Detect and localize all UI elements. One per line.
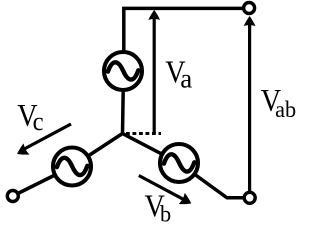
node: neutral point dotted reference line xyxy=(126,132,161,135)
svg-text:b: b xyxy=(160,201,171,227)
label Vab xyxy=(261,83,296,122)
label Va xyxy=(165,54,192,94)
terminal b (open circle, bottom right) xyxy=(244,192,255,203)
wire: from top source down to neutral node xyxy=(121,90,125,134)
terminal a (open circle, top right) xyxy=(244,3,255,14)
wire: top horizontal bus from corner to terminal a xyxy=(124,8,243,52)
ac source (phase a) xyxy=(104,52,142,90)
svg-text:a: a xyxy=(180,64,192,94)
ac source (phase c) xyxy=(53,148,91,186)
arrow Vb (pointing down-right) xyxy=(139,176,194,210)
arrow Vc (pointing down-left) xyxy=(14,124,71,160)
wire: neutral node to left source xyxy=(72,134,123,167)
svg-text:ab: ab xyxy=(275,96,296,121)
arrow Va (phase-a voltage, pointing up) xyxy=(148,10,160,135)
arrow Vab (line voltage, pointing up) xyxy=(244,16,256,191)
label Vc xyxy=(17,97,43,136)
wire: left source to bottom-left terminal xyxy=(13,167,72,197)
svg-text:c: c xyxy=(33,107,44,136)
wire: neutral node to right source xyxy=(123,134,180,164)
wire: right source to bottom-right terminal (with bend) xyxy=(179,163,250,198)
terminal c (open circle, bottom left) xyxy=(7,191,18,202)
ac source (phase b) xyxy=(160,144,198,182)
label Vb xyxy=(145,188,172,227)
